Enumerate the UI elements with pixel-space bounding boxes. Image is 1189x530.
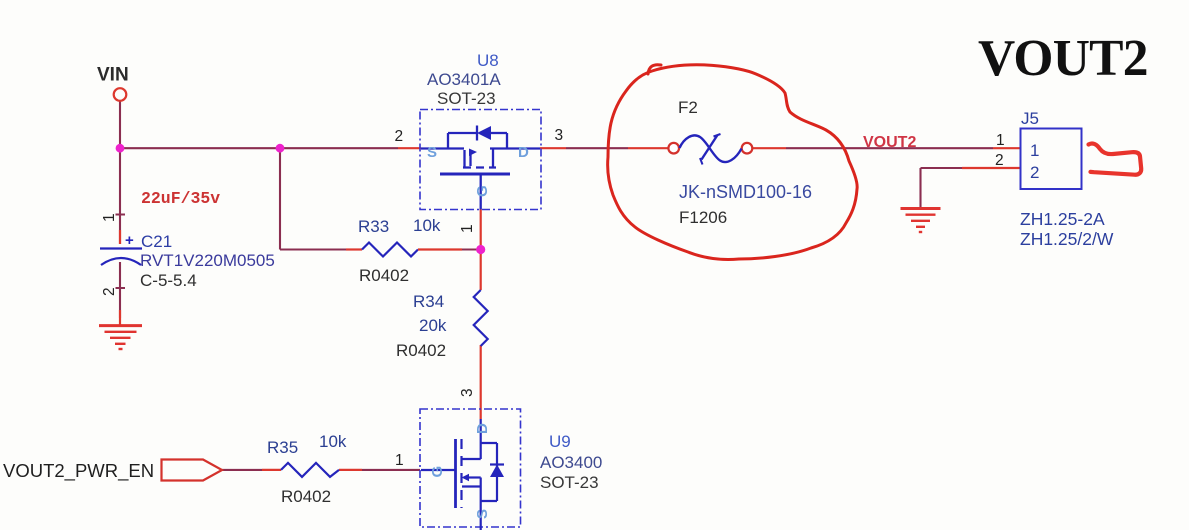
svg-text:10k: 10k: [319, 432, 347, 451]
svg-text:D: D: [518, 144, 529, 161]
svg-text:SOT-23: SOT-23: [437, 89, 496, 108]
svg-text:2: 2: [395, 128, 404, 145]
svg-text:U9: U9: [549, 432, 571, 451]
svg-text:VOUT2_PWR_EN: VOUT2_PWR_EN: [3, 460, 154, 482]
svg-text:R0402: R0402: [359, 266, 409, 285]
svg-text:22uF/35v: 22uF/35v: [141, 189, 220, 208]
svg-text:VOUT2: VOUT2: [978, 30, 1148, 87]
svg-text:RVT1V220M0505: RVT1V220M0505: [140, 251, 275, 270]
svg-text:1: 1: [1030, 141, 1039, 160]
svg-text:3: 3: [459, 388, 476, 397]
svg-text:C-5-5.4: C-5-5.4: [140, 271, 197, 290]
svg-text:SOT-23: SOT-23: [540, 473, 599, 492]
svg-text:R34: R34: [413, 292, 444, 311]
svg-text:F1206: F1206: [679, 208, 727, 227]
svg-text:VOUT2: VOUT2: [863, 134, 916, 151]
svg-text:2: 2: [101, 287, 118, 296]
svg-text:S: S: [427, 144, 437, 161]
svg-text:JK-nSMD100-16: JK-nSMD100-16: [679, 182, 812, 202]
svg-text:2: 2: [995, 152, 1004, 169]
svg-text:U8: U8: [477, 51, 499, 70]
svg-text:R0402: R0402: [396, 341, 446, 360]
svg-text:20k: 20k: [419, 316, 447, 335]
svg-text:10k: 10k: [413, 216, 441, 235]
svg-text:G: G: [429, 466, 446, 478]
svg-text:R0402: R0402: [281, 487, 331, 506]
svg-text:VIN: VIN: [97, 65, 129, 86]
svg-text:R35: R35: [267, 438, 298, 457]
svg-text:1: 1: [395, 452, 404, 469]
svg-text:D: D: [474, 423, 491, 434]
svg-text:+: +: [125, 232, 134, 249]
svg-text:ZH1.25-2A: ZH1.25-2A: [1020, 209, 1105, 229]
svg-text:F2: F2: [678, 98, 698, 117]
svg-text:R33: R33: [358, 217, 389, 236]
svg-text:ZH1.25/2/W: ZH1.25/2/W: [1020, 229, 1114, 249]
svg-text:C21: C21: [141, 232, 172, 251]
svg-text:G: G: [474, 185, 491, 197]
svg-text:3: 3: [555, 127, 564, 144]
svg-text:1: 1: [101, 213, 118, 222]
svg-text:1: 1: [459, 224, 476, 233]
svg-text:S: S: [474, 509, 491, 519]
svg-text:1: 1: [996, 132, 1005, 149]
svg-text:AO3401A: AO3401A: [427, 70, 501, 89]
svg-text:2: 2: [1030, 163, 1039, 182]
svg-text:AO3400: AO3400: [540, 453, 602, 472]
svg-text:J5: J5: [1021, 109, 1039, 128]
